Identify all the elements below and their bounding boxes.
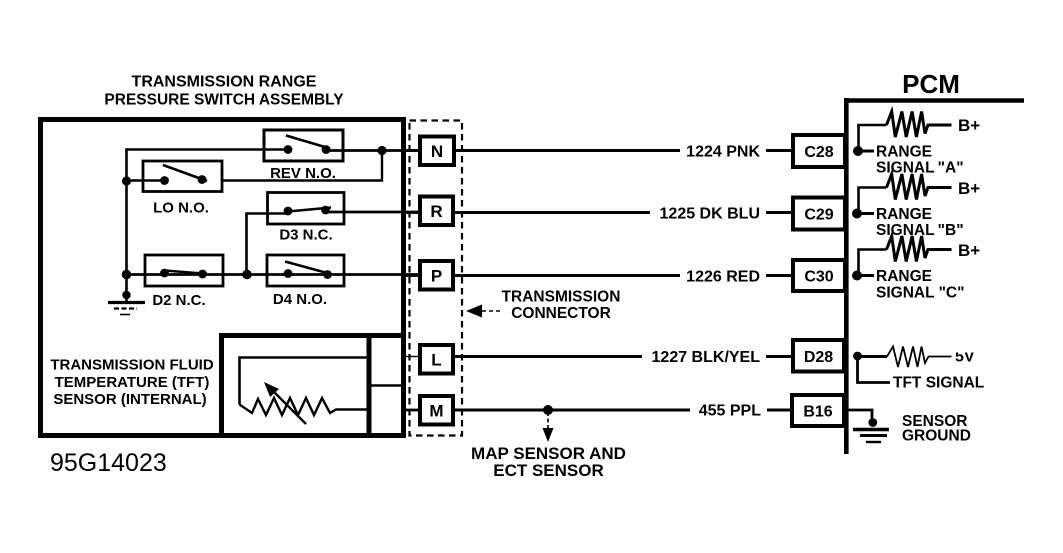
svg-text:SENSOR (INTERNAL): SENSOR (INTERNAL) bbox=[53, 391, 206, 408]
node: C30 junction bbox=[852, 271, 862, 281]
svg-text:LO N.O.: LO N.O. bbox=[153, 200, 209, 217]
RANGE SIGNAL "A" bbox=[858, 144, 964, 177]
svg-text:TEMPERATURE (TFT): TEMPERATURE (TFT) bbox=[55, 374, 210, 391]
SENSOR GROUND label bbox=[902, 413, 971, 445]
svg-text:N: N bbox=[431, 142, 443, 161]
pin N bbox=[404, 137, 454, 166]
svg-text:R: R bbox=[430, 202, 442, 221]
svg-text:PRESSURE SWITCH ASSEMBLY: PRESSURE SWITCH ASSEMBLY bbox=[104, 92, 344, 109]
svg-text:D3 N.C.: D3 N.C. bbox=[279, 227, 332, 244]
svg-text:SIGNAL "C": SIGNAL "C" bbox=[876, 285, 964, 302]
wire 1224 PNK (pin N to C28) bbox=[454, 144, 793, 161]
svg-text:1227 BLK/YEL: 1227 BLK/YEL bbox=[652, 349, 761, 366]
svg-text:TRANSMISSION RANGE: TRANSMISSION RANGE bbox=[132, 74, 317, 91]
node: bus at D2 bbox=[122, 270, 132, 280]
svg-text:D28: D28 bbox=[804, 349, 833, 366]
wire: LO left feed bbox=[127, 179, 165, 181]
wire: left bus vertical bbox=[125, 150, 128, 303]
sensor ground wire from B16 bbox=[848, 410, 877, 427]
TFT sensor box bbox=[222, 336, 404, 436]
pin P bbox=[404, 261, 453, 290]
wire 455 PPL (pin M to B16) bbox=[453, 403, 792, 420]
svg-text:95G14023: 95G14023 bbox=[50, 449, 167, 477]
svg-text:B+: B+ bbox=[958, 116, 980, 135]
thermistor zigzag bbox=[240, 398, 370, 415]
RANGE SIGNAL "B" bbox=[857, 206, 964, 239]
svg-text:M: M bbox=[429, 402, 443, 421]
svg-text:RANGE: RANGE bbox=[876, 268, 932, 285]
pin M bbox=[404, 396, 453, 425]
TFT label bbox=[50, 357, 213, 409]
RANGE SIGNAL "C" bbox=[857, 268, 964, 302]
TFT inner element top/left bbox=[240, 358, 370, 405]
connector D28 bbox=[793, 340, 844, 372]
switch D3 N.C. bbox=[268, 193, 345, 244]
switch REV N.O. bbox=[264, 130, 343, 182]
switch D4 N.O. bbox=[267, 255, 344, 308]
TFT SIGNAL branch bbox=[858, 356, 985, 392]
svg-text:C30: C30 bbox=[804, 269, 833, 286]
pull-up resistor C to B+ bbox=[859, 236, 981, 276]
TFT terminal divider vertical bbox=[367, 333, 372, 438]
svg-text:B+: B+ bbox=[958, 179, 980, 198]
svg-text:CONNECTOR: CONNECTOR bbox=[511, 305, 611, 322]
svg-text:TRANSMISSION: TRANSMISSION bbox=[502, 289, 621, 306]
connector C28 bbox=[793, 135, 845, 167]
title: TRANSMISSION RANGE PRESSURE SWITCH ASSEMBLY bbox=[104, 74, 344, 109]
node: REV/LO junction bbox=[377, 146, 386, 155]
connector B16 bbox=[792, 395, 844, 426]
PCM boundary top bbox=[844, 98, 1024, 103]
node: C28 junction bbox=[853, 146, 863, 156]
switch LO N.O. bbox=[143, 161, 222, 217]
wire 1226 RED (pin P to C30) bbox=[453, 269, 793, 286]
transmission connector dashed box bbox=[410, 121, 463, 436]
wire: D3 left feed down to D2/D4 row bbox=[247, 214, 289, 275]
wire 1227 BLK/YEL (pin L to D28) bbox=[453, 349, 793, 366]
wire: D2/D4 row bbox=[127, 273, 421, 276]
connector C29 bbox=[793, 198, 845, 230]
svg-text:B+: B+ bbox=[958, 241, 980, 260]
svg-text:P: P bbox=[431, 267, 442, 286]
ground (switch bus) bbox=[108, 291, 145, 315]
svg-text:455 PPL: 455 PPL bbox=[699, 403, 761, 420]
5V reference resistor bbox=[860, 344, 977, 367]
pin R bbox=[404, 197, 453, 226]
svg-text:TFT SIGNAL: TFT SIGNAL bbox=[893, 375, 984, 392]
pin L bbox=[404, 345, 453, 374]
svg-text:PCM: PCM bbox=[902, 69, 960, 99]
node: C29 junction bbox=[852, 209, 862, 219]
pressure switch assembly box bbox=[41, 120, 404, 436]
svg-text:C29: C29 bbox=[804, 207, 833, 224]
svg-text:TRANSMISSION FLUID: TRANSMISSION FLUID bbox=[50, 357, 213, 374]
node: D28 junction bbox=[853, 352, 862, 361]
svg-text:D4 N.O.: D4 N.O. bbox=[273, 291, 327, 308]
svg-text:1226 RED: 1226 RED bbox=[686, 269, 760, 286]
transmission connector callout bbox=[466, 289, 620, 323]
connector C30 bbox=[793, 260, 845, 291]
TFT terminal divider horizontal bbox=[369, 384, 403, 387]
PCM boundary left bbox=[844, 98, 849, 454]
svg-text:SIGNAL "A": SIGNAL "A" bbox=[876, 160, 964, 177]
svg-text:C28: C28 bbox=[804, 144, 833, 161]
node: D2-D4 junction bbox=[242, 270, 252, 280]
wire: REV output to pin N bbox=[326, 149, 420, 152]
switch D2 N.C. bbox=[145, 255, 223, 309]
svg-text:D2 N.C.: D2 N.C. bbox=[152, 292, 205, 309]
svg-text:1224 PNK: 1224 PNK bbox=[686, 144, 760, 161]
wire: junction down to LO output bbox=[222, 151, 382, 181]
svg-text:RANGE: RANGE bbox=[876, 144, 932, 161]
arrow to MAP/ECT sensors bbox=[471, 412, 626, 480]
svg-text:B16: B16 bbox=[803, 404, 832, 421]
wire 1225 DK BLU (pin R to C29) bbox=[453, 206, 793, 223]
svg-text:ECT SENSOR: ECT SENSOR bbox=[493, 461, 604, 480]
pull-up resistor B to B+ bbox=[859, 174, 981, 214]
svg-text:1225 DK BLU: 1225 DK BLU bbox=[660, 206, 760, 223]
ground (sensor) bbox=[853, 430, 889, 443]
svg-text:GROUND: GROUND bbox=[902, 428, 971, 445]
svg-text:L: L bbox=[431, 351, 441, 370]
wire: D3 output to pin R bbox=[326, 211, 421, 214]
thermistor arrow bbox=[264, 382, 306, 424]
node: MAP/ECT tap on 455 PPL bbox=[543, 405, 553, 415]
svg-text:SIGNAL "B": SIGNAL "B" bbox=[876, 222, 964, 239]
svg-text:RANGE: RANGE bbox=[876, 206, 932, 223]
node: bus at LO bbox=[122, 176, 131, 185]
wire: REV left feed bbox=[125, 148, 288, 151]
pull-up resistor A to B+ bbox=[859, 112, 981, 152]
